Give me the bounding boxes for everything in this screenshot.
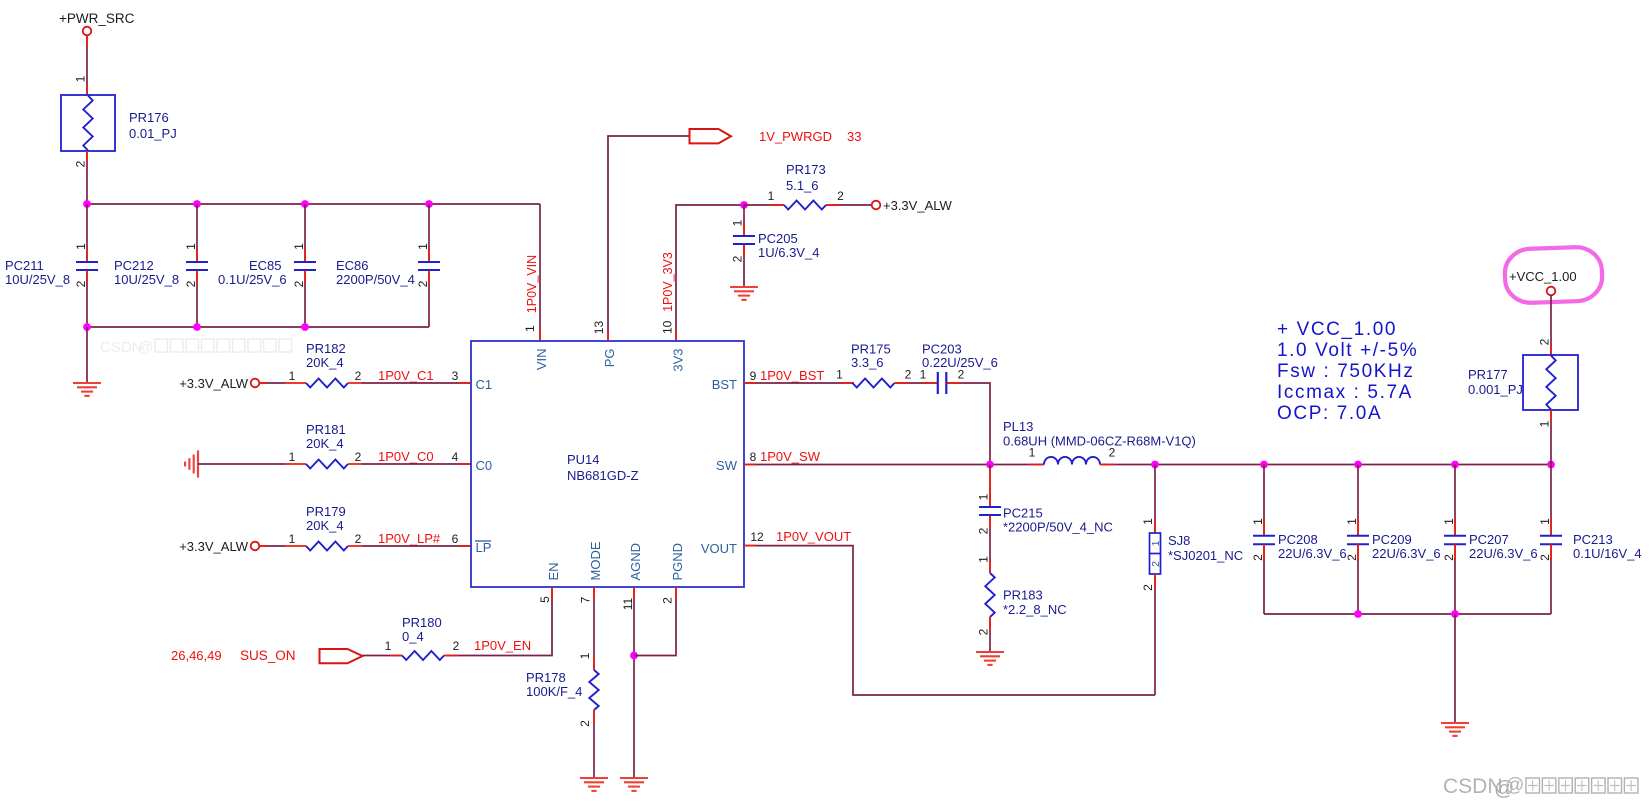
wire net 1P0V_C1 to PU14 — [362, 382, 471, 384]
svg-text:1: 1 — [836, 368, 843, 382]
svg-text:1P0V_C0: 1P0V_C0 — [378, 449, 434, 464]
wire 1P0V_EN to EN pin — [444, 587, 552, 656]
wire output gnd drop — [1454, 614, 1456, 723]
wire PR183 to ground — [989, 617, 991, 652]
svg-text:1: 1 — [289, 532, 296, 546]
wire PC212 bottom lead — [196, 271, 198, 327]
svg-text:PL13: PL13 — [1003, 419, 1033, 434]
svg-text:PR181: PR181 — [306, 422, 346, 437]
svg-text:0.1U/25V_6: 0.1U/25V_6 — [218, 272, 287, 287]
wire PC213 top lead — [1550, 465, 1552, 536]
svg-text:3.3_6: 3.3_6 — [851, 355, 884, 370]
resistor PR176 (boxed shunt) — [61, 95, 115, 151]
wire 1P0V_VIN drop to VIN pin — [539, 204, 541, 341]
svg-text:1: 1 — [184, 243, 198, 250]
svg-text:+3.3V_ALW: +3.3V_ALW — [179, 539, 249, 554]
svg-text:10: 10 — [661, 320, 675, 334]
wire output gnd rail — [1264, 613, 1551, 615]
svg-text:20K_4: 20K_4 — [306, 355, 344, 370]
svg-text:EC86: EC86 — [336, 258, 369, 273]
svg-text:11: 11 — [621, 597, 635, 610]
wire PC205 top lead — [743, 205, 745, 236]
svg-text:0.1U/16V_4: 0.1U/16V_4 — [1573, 546, 1642, 561]
port SUS_ON input arrow — [320, 649, 363, 663]
wire PR178 to ground — [593, 710, 595, 778]
svg-text:9: 9 — [750, 369, 757, 383]
svg-text:PR182: PR182 — [306, 341, 346, 356]
ground output caps — [1441, 722, 1469, 724]
svg-text:LP: LP — [476, 540, 492, 555]
wire PC205 bottom lead — [743, 245, 745, 287]
svg-text:2: 2 — [1251, 554, 1265, 561]
wire SUS_ON to PR180 — [363, 655, 403, 657]
svg-text:@: @ — [1505, 775, 1524, 796]
svg-text:1P0V_EN: 1P0V_EN — [474, 638, 531, 653]
svg-text:SUS_ON: SUS_ON — [240, 648, 296, 663]
svg-text:*2.2_8_NC: *2.2_8_NC — [1003, 602, 1067, 617]
svg-text:@: @ — [138, 339, 153, 356]
svg-text:1P0V_C1: 1P0V_C1 — [378, 368, 434, 383]
resistor PR179 — [306, 542, 348, 551]
capacitor EC86 — [418, 261, 440, 263]
svg-text:+VCC_1.00: +VCC_1.00 — [1509, 269, 1577, 284]
svg-text:2: 2 — [578, 720, 592, 727]
svg-text:7: 7 — [579, 596, 593, 603]
wire +PWR_SRC to PR176 pin1 — [86, 35, 88, 95]
svg-text:+3.3V_ALW: +3.3V_ALW — [179, 376, 249, 391]
svg-text:1: 1 — [1251, 518, 1265, 525]
svg-text:3V3: 3V3 — [670, 349, 685, 372]
svg-text:2: 2 — [453, 639, 460, 653]
svg-text:2: 2 — [184, 280, 198, 287]
svg-text:2: 2 — [355, 532, 362, 546]
svg-text:1: 1 — [1538, 518, 1552, 525]
junction input rail at PC212 — [193, 200, 201, 208]
svg-text:4: 4 — [452, 450, 459, 464]
svg-text:8: 8 — [750, 450, 757, 464]
wire PR179 pin2 stub — [348, 545, 362, 547]
svg-text:1: 1 — [578, 652, 592, 659]
capacitor EC85 — [294, 261, 316, 263]
capacitor PC207 — [1444, 535, 1466, 537]
wire PR176 pin2 to input rail — [86, 151, 88, 204]
wire ground to PR181 pin1 — [198, 463, 285, 465]
junction gnd rail at PC212 — [193, 323, 201, 331]
wire PG pin to port — [608, 136, 690, 341]
svg-text:Iccmax : 5.7A: Iccmax : 5.7A — [1277, 382, 1413, 403]
junction VCC rail at PC207 — [1451, 461, 1459, 469]
wire PC215 to PR183 — [989, 516, 991, 573]
svg-text:26,46,49: 26,46,49 — [171, 648, 222, 663]
wire PR182 pin1 stub — [285, 382, 306, 384]
resistor PR178 — [589, 670, 598, 710]
svg-text:BST: BST — [712, 377, 737, 392]
svg-text:2: 2 — [1345, 554, 1359, 561]
svg-text:1P0V_LP#: 1P0V_LP# — [378, 531, 441, 546]
svg-text:PR179: PR179 — [306, 504, 346, 519]
jumper SJ8 body — [1150, 533, 1161, 574]
wire input rail 1P0V_VIN horizontal — [87, 203, 540, 205]
capacitor PC215 — [979, 506, 1001, 508]
junction input rail at EC86 — [425, 200, 433, 208]
wire PC203 to SW node — [946, 383, 990, 465]
svg-text:Fsw : 750KHz: Fsw : 750KHz — [1277, 361, 1414, 382]
node +PWR_SRC terminal — [83, 27, 92, 36]
svg-text:2: 2 — [837, 189, 844, 203]
wire PC215 top lead — [989, 465, 991, 508]
wire gnd rail drop — [86, 327, 88, 383]
svg-text:1P0V_3V3: 1P0V_3V3 — [661, 252, 675, 312]
svg-text:2: 2 — [355, 369, 362, 383]
svg-text:EN: EN — [546, 562, 561, 580]
svg-text:1: 1 — [977, 493, 991, 500]
svg-text:2: 2 — [292, 280, 306, 287]
svg-text:OCP: 7.0A: OCP: 7.0A — [1277, 403, 1382, 424]
wire PC211 top lead — [86, 204, 88, 262]
wire PC207 top lead — [1454, 465, 1456, 536]
wire SW rail right of PL13 (+VCC_1.00 rail) — [1100, 464, 1551, 466]
ground PR178 — [580, 777, 608, 779]
capacitor PC209 — [1347, 535, 1369, 537]
svg-text:C0: C0 — [476, 458, 493, 473]
node watermark CSDN — [1443, 775, 1638, 800]
resistor PR173 — [784, 201, 826, 210]
junction AGND/PGND node — [630, 652, 638, 660]
svg-text:2: 2 — [731, 255, 745, 262]
svg-text:2: 2 — [1150, 561, 1162, 567]
svg-text:1P0V_VIN: 1P0V_VIN — [525, 255, 539, 313]
svg-text:PC215: PC215 — [1003, 506, 1043, 521]
svg-text:2: 2 — [416, 280, 430, 287]
resistor PR183 — [985, 573, 994, 617]
junction VCC rail at PR177/PC213 — [1547, 461, 1555, 469]
wire PR181 pin1 stub — [285, 463, 306, 465]
svg-text:PU14: PU14 — [567, 452, 600, 467]
wire PC208 bottom lead — [1263, 544, 1265, 614]
wire AGND pin to ground — [633, 587, 635, 778]
svg-text:PC212: PC212 — [114, 258, 154, 273]
svg-text:1: 1 — [1345, 518, 1359, 525]
svg-text:1: 1 — [289, 450, 296, 464]
svg-text:1: 1 — [385, 639, 392, 653]
ground AGND — [620, 777, 648, 779]
wire +VCC_1.00 to PR177 — [1550, 295, 1552, 355]
svg-text:+3.3V_ALW: +3.3V_ALW — [883, 198, 953, 213]
junction output gnd rail at PC209 — [1354, 610, 1362, 618]
junction input rail at EC85 — [301, 200, 309, 208]
wire PGND pin to AGND node — [634, 587, 676, 656]
svg-text:20K_4: 20K_4 — [306, 518, 344, 533]
svg-text:1P0V_BST: 1P0V_BST — [760, 368, 824, 383]
inductor PL13 — [1044, 457, 1100, 465]
wire terminal to PR179 pin1 — [259, 545, 285, 547]
op-amp U1 regulator PU14 NB681GD-Z body — [471, 341, 744, 587]
svg-text:1: 1 — [416, 243, 430, 250]
wire PC212 top lead — [196, 204, 198, 262]
svg-text:100K/F_4: 100K/F_4 — [526, 684, 582, 699]
resistor PR181 — [306, 460, 348, 469]
capacitor PC213 — [1540, 535, 1562, 537]
svg-text:PC209: PC209 — [1372, 532, 1412, 547]
wire PC213 bottom lead — [1550, 544, 1552, 614]
svg-text:1: 1 — [768, 189, 775, 203]
port 1V_PWRGD output arrow — [690, 129, 732, 143]
wire EC86 bottom lead — [428, 271, 430, 327]
svg-text:22U/6.3V_6: 22U/6.3V_6 — [1372, 546, 1441, 561]
wire SJ8 bottom lead — [1154, 574, 1156, 695]
junction input rail at PC211 — [83, 200, 91, 208]
svg-text:2200P/50V_4: 2200P/50V_4 — [336, 272, 415, 287]
svg-text:MODE: MODE — [588, 541, 603, 580]
wire MODE pin to PR178 — [593, 587, 595, 670]
svg-text:1P0V_VOUT: 1P0V_VOUT — [776, 529, 851, 544]
wire SW rail left segment — [744, 464, 1044, 466]
resistor PR180 — [402, 651, 444, 660]
svg-text:AGND: AGND — [628, 543, 643, 581]
svg-text:1: 1 — [1538, 420, 1552, 427]
svg-text:1.0 Volt +/-5%: 1.0 Volt +/-5% — [1277, 340, 1418, 361]
wire VOUT feedback loop — [744, 546, 1155, 695]
svg-text:1: 1 — [1150, 540, 1162, 546]
capacitor PC212 — [186, 261, 208, 263]
svg-text:13: 13 — [592, 321, 606, 335]
wire PR173 pin2 to +3.3V_ALW — [826, 204, 872, 206]
svg-text:SJ8: SJ8 — [1168, 533, 1190, 548]
svg-text:33: 33 — [847, 129, 861, 144]
wire 3V3 pin to node — [676, 205, 744, 341]
junction VCC rail at PC209 — [1354, 461, 1362, 469]
capacitor PC203 — [937, 372, 939, 394]
svg-text:2: 2 — [661, 597, 675, 604]
wire net 1P0V_LP# to PU14 — [362, 545, 471, 547]
wire input gnd rail horizontal — [87, 326, 429, 328]
node +VCC_1.00 highlight ellipse — [1504, 246, 1603, 303]
svg-text:1: 1 — [731, 219, 745, 226]
svg-text:PC207: PC207 — [1469, 532, 1509, 547]
svg-text:PR176: PR176 — [129, 110, 169, 125]
wire PC207 bottom lead — [1454, 544, 1456, 614]
svg-text:20K_4: 20K_4 — [306, 436, 344, 451]
resistor PR182 — [306, 379, 348, 388]
resistor PR177 (boxed shunt) — [1523, 355, 1578, 410]
svg-text:C1: C1 — [476, 377, 493, 392]
svg-text:*SJ0201_NC: *SJ0201_NC — [1168, 548, 1243, 563]
svg-text:1U/6.3V_4: 1U/6.3V_4 — [758, 245, 819, 260]
svg-text:1: 1 — [977, 556, 991, 563]
resistor PR175 — [853, 379, 895, 388]
wire EC86 top lead — [428, 204, 430, 262]
svg-text:PR180: PR180 — [402, 615, 442, 630]
svg-text:2: 2 — [977, 527, 991, 534]
svg-text:2: 2 — [1141, 584, 1155, 591]
junction output gnd rail at PC207 — [1451, 610, 1459, 618]
svg-text:VOUT: VOUT — [701, 541, 737, 556]
svg-text:SW: SW — [716, 458, 738, 473]
wire PR177 to VCC rail — [1550, 410, 1552, 465]
svg-text:5.1_6: 5.1_6 — [786, 178, 819, 193]
svg-text:PR177: PR177 — [1468, 367, 1508, 382]
node +3.3V_ALW terminal (PR182 row) — [251, 379, 260, 388]
svg-text:1P0V_SW: 1P0V_SW — [760, 449, 821, 464]
svg-text:PC213: PC213 — [1573, 532, 1613, 547]
svg-text:PR173: PR173 — [786, 162, 826, 177]
wire SJ8 top lead — [1154, 465, 1156, 534]
wire BST pin to PR175 — [744, 382, 854, 384]
svg-text:0.01_PJ: 0.01_PJ — [129, 126, 177, 141]
svg-text:PC205: PC205 — [758, 231, 798, 246]
wire PR182 pin2 stub — [348, 382, 362, 384]
wire EC85 top lead — [304, 204, 306, 262]
svg-text:EC85: EC85 — [249, 258, 282, 273]
node +3.3V_ALW terminal (PR179 row) — [251, 542, 260, 551]
wire node to PR173 pin1 — [744, 204, 784, 206]
wire PC211 bottom lead — [86, 271, 88, 327]
ground PC205 — [730, 286, 758, 288]
svg-text:10U/25V_8: 10U/25V_8 — [5, 272, 70, 287]
wire PR181 pin2 stub — [348, 463, 362, 465]
svg-text:2: 2 — [958, 368, 965, 382]
svg-text:VIN: VIN — [534, 349, 549, 371]
ground input caps — [73, 382, 101, 384]
node +VCC_1.00 terminal — [1547, 287, 1556, 296]
svg-text:PGND: PGND — [670, 543, 685, 581]
svg-text:+ VCC_1.00: + VCC_1.00 — [1277, 319, 1397, 340]
svg-text:NB681GD-Z: NB681GD-Z — [567, 468, 639, 483]
node output spec annotation — [1277, 319, 1418, 424]
svg-text:2: 2 — [977, 628, 991, 635]
svg-text:2: 2 — [74, 280, 88, 287]
junction gnd rail at EC85 — [301, 323, 309, 331]
junction 3V3 node — [740, 201, 748, 209]
svg-text:1: 1 — [289, 369, 296, 383]
svg-text:1: 1 — [74, 243, 88, 250]
svg-text:1: 1 — [292, 243, 306, 250]
capacitor PC205 — [733, 235, 755, 237]
wire PC208 top lead — [1263, 465, 1265, 536]
svg-text:6: 6 — [452, 532, 459, 546]
junction VCC rail at PC208 — [1260, 461, 1268, 469]
svg-text:10U/25V_8: 10U/25V_8 — [114, 272, 179, 287]
svg-text:2: 2 — [1538, 554, 1552, 561]
svg-text:0.001_PJ: 0.001_PJ — [1468, 382, 1523, 397]
wire PC209 top lead — [1357, 465, 1359, 536]
svg-text:PG: PG — [602, 349, 617, 368]
svg-text:1: 1 — [523, 325, 537, 332]
svg-text:1: 1 — [1141, 518, 1155, 525]
svg-text:1V_PWRGD: 1V_PWRGD — [759, 129, 832, 144]
svg-text:PR183: PR183 — [1003, 588, 1043, 603]
capacitor PC208 — [1253, 535, 1275, 537]
svg-text:0_4: 0_4 — [402, 629, 424, 644]
junction gnd rail at PC211 — [83, 323, 91, 331]
svg-text:PC211: PC211 — [5, 258, 44, 273]
svg-text:0.68UH (MMD-06CZ-R68M-V1Q): 0.68UH (MMD-06CZ-R68M-V1Q) — [1003, 434, 1196, 449]
wire PR175 to PC203 — [895, 382, 938, 384]
svg-text:2: 2 — [74, 160, 88, 167]
svg-text:*2200P/50V_4_NC: *2200P/50V_4_NC — [1003, 520, 1113, 535]
wire terminal to PR182 pin1 — [259, 382, 285, 384]
capacitor PC211 — [76, 261, 98, 263]
svg-text:+PWR_SRC: +PWR_SRC — [59, 11, 135, 26]
node +3.3V_ALW terminal (PR173) — [872, 201, 881, 210]
svg-text:PR178: PR178 — [526, 670, 566, 685]
svg-text:12: 12 — [750, 530, 764, 544]
svg-text:1: 1 — [1442, 518, 1456, 525]
svg-text:PC208: PC208 — [1278, 532, 1318, 547]
svg-text:CSDN: CSDN — [100, 339, 143, 356]
svg-text:2: 2 — [905, 368, 912, 382]
svg-text:3: 3 — [452, 369, 459, 383]
svg-text:2: 2 — [355, 450, 362, 464]
svg-text:22U/6.3V_6: 22U/6.3V_6 — [1469, 546, 1538, 561]
svg-text:22U/6.3V_6: 22U/6.3V_6 — [1278, 546, 1347, 561]
wire EC85 bottom lead — [304, 271, 306, 327]
wire net 1P0V_C0 to PU14 — [362, 463, 471, 465]
svg-text:2: 2 — [1109, 446, 1116, 460]
svg-text:2: 2 — [1538, 338, 1552, 345]
wire PC209 bottom lead — [1357, 544, 1359, 614]
svg-text:2: 2 — [1442, 554, 1456, 561]
junction VCC rail at SJ8 — [1151, 461, 1159, 469]
ground signal-ref (PR181 row) — [197, 451, 199, 478]
ground PR183 — [976, 651, 1004, 653]
svg-text:1: 1 — [74, 75, 88, 82]
wire PR179 pin1 stub — [285, 545, 306, 547]
label PU14 pin names — [475, 349, 738, 581]
junction SW node at PC215 — [986, 461, 994, 469]
svg-text:5: 5 — [538, 596, 552, 603]
